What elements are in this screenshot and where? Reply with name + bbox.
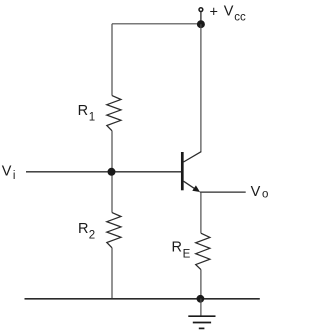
transistor Q1 emitter arrowhead [192, 185, 200, 192]
wire input Vi horizontal to base [26, 171, 181, 173]
ground symbol bar 3 [199, 327, 205, 329]
svg-text:+Vcc: +Vcc [210, 3, 246, 23]
wire top horizontal from R1 top to Vcc node [112, 23, 201, 25]
wire emitter vertical to RE [200, 192, 202, 233]
junction dot at ground rail [197, 295, 205, 303]
wire left vertical above R1 [111, 24, 113, 96]
wire left vertical below R2 to ground rail [111, 248, 113, 299]
svg-text:Vo: Vo [251, 184, 269, 201]
ground symbol bar 1 [188, 315, 215, 317]
junction dot at base divider node [108, 168, 116, 176]
resistor RE zigzag [196, 233, 210, 269]
power terminal +Vcc open circle [199, 8, 203, 12]
svg-text:R1: R1 [78, 103, 96, 123]
resistor R2 zigzag [107, 213, 121, 248]
svg-text:R2: R2 [78, 221, 95, 242]
ground symbol stem [200, 299, 202, 316]
wire from terminal circle down to junction [200, 12, 202, 24]
transistor Q1 base bar [181, 152, 184, 190]
ground symbol bar 2 [193, 322, 211, 324]
svg-text:RE: RE [172, 239, 191, 260]
wire collector vertical [200, 24, 202, 152]
wire left vertical between R1 and R2 [111, 131, 113, 213]
wire emitter node to Vo [200, 191, 246, 193]
transistor Q1 collector diagonal [184, 152, 202, 162]
transistor Q1 emitter diagonal [184, 181, 195, 188]
wire below RE to ground rail [200, 270, 202, 299]
resistor R1 zigzag [107, 96, 121, 131]
svg-text:Vi: Vi [2, 163, 16, 181]
junction dot at Vcc node [197, 20, 205, 28]
ground rail bottom [25, 298, 260, 300]
